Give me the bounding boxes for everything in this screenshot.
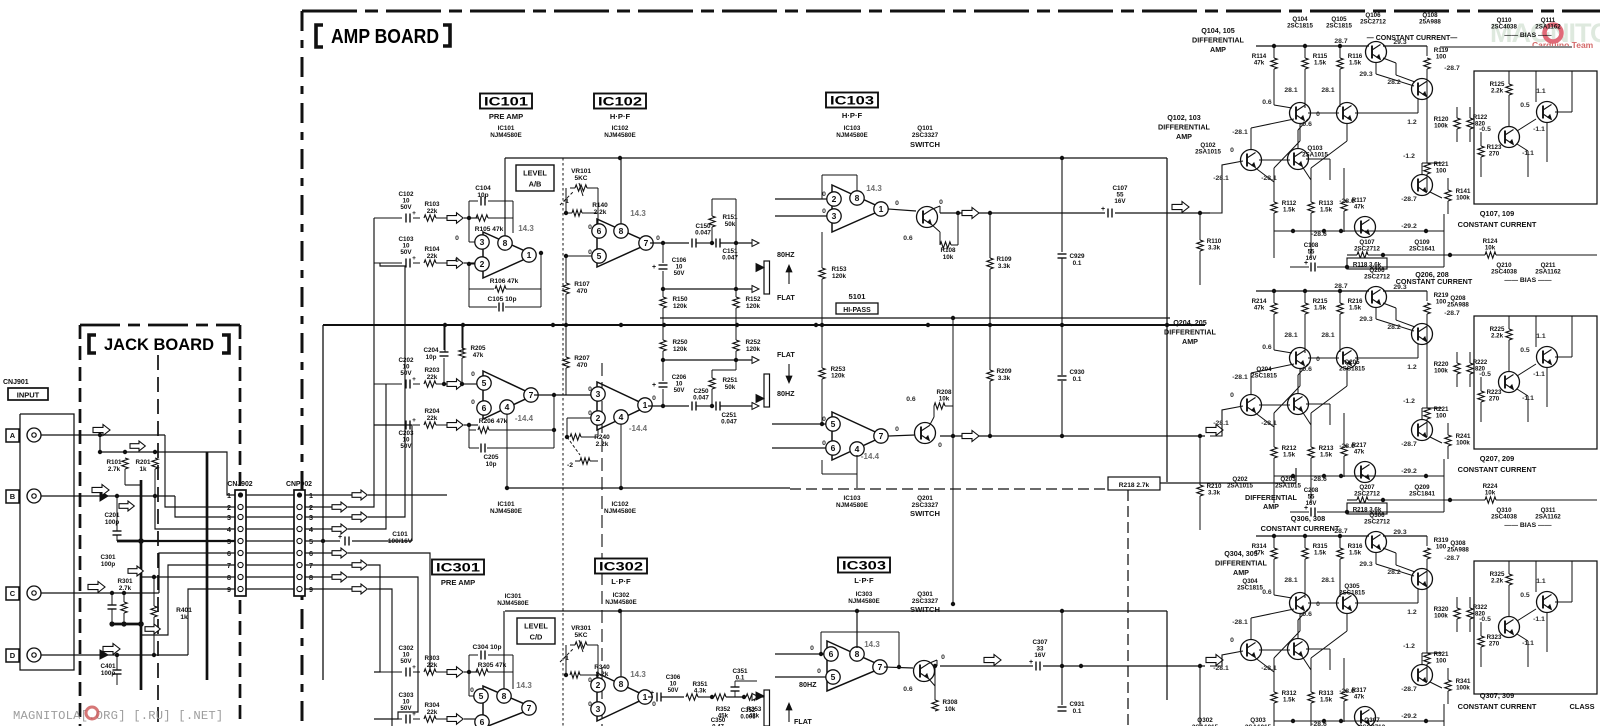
svg-text:10p: 10p bbox=[486, 461, 497, 468]
svg-text:-0.6: -0.6 bbox=[1300, 611, 1312, 618]
svg-text:28.1: 28.1 bbox=[1321, 577, 1334, 584]
svg-text:Q304, 305: Q304, 305 bbox=[1224, 549, 1258, 558]
svg-text:Q301: Q301 bbox=[917, 591, 933, 598]
svg-text:3.3k: 3.3k bbox=[998, 375, 1011, 382]
svg-text:A/B: A/B bbox=[529, 180, 542, 189]
svg-text:-28.7: -28.7 bbox=[1444, 65, 1460, 72]
svg-text:22k: 22k bbox=[427, 662, 438, 669]
svg-text:10p: 10p bbox=[426, 354, 437, 361]
svg-text:-28.1: -28.1 bbox=[1261, 665, 1277, 672]
svg-text:-0.5: -0.5 bbox=[1479, 126, 1491, 133]
svg-text:-28.6: -28.6 bbox=[1339, 688, 1355, 695]
svg-text:2SA1015: 2SA1015 bbox=[1275, 483, 1301, 490]
svg-text:R150: R150 bbox=[672, 296, 688, 303]
svg-text:0.047: 0.047 bbox=[693, 395, 709, 402]
svg-text:0: 0 bbox=[895, 426, 899, 433]
svg-text:120k: 120k bbox=[673, 303, 688, 310]
svg-text:SWITCH: SWITCH bbox=[910, 140, 940, 149]
svg-text:IC301: IC301 bbox=[436, 563, 481, 575]
svg-text:3.3k: 3.3k bbox=[998, 263, 1011, 270]
svg-text:NJM4580E: NJM4580E bbox=[848, 598, 880, 605]
svg-text:7: 7 bbox=[227, 561, 231, 570]
svg-text:2: 2 bbox=[227, 503, 231, 512]
svg-text:47k: 47k bbox=[1354, 204, 1365, 211]
svg-text:100: 100 bbox=[1436, 168, 1447, 175]
svg-text:L·P·F: L·P·F bbox=[611, 577, 631, 586]
svg-text:100/16V: 100/16V bbox=[388, 538, 413, 545]
svg-text:-28.6: -28.6 bbox=[1311, 721, 1327, 726]
svg-text:5: 5 bbox=[482, 378, 487, 388]
svg-text:47k: 47k bbox=[473, 352, 484, 359]
svg-text:47k: 47k bbox=[1354, 449, 1365, 456]
svg-text:C/D: C/D bbox=[530, 633, 543, 642]
svg-text:2SA1015: 2SA1015 bbox=[1195, 149, 1221, 156]
svg-text:R204: R204 bbox=[424, 408, 440, 415]
svg-text:-28.1: -28.1 bbox=[1213, 420, 1229, 427]
svg-text:0.6: 0.6 bbox=[1262, 344, 1272, 351]
svg-text:9: 9 bbox=[227, 585, 231, 594]
svg-text:2SC2712: 2SC2712 bbox=[1354, 491, 1380, 498]
svg-text:R207: R207 bbox=[574, 355, 590, 362]
svg-text:2SC3327: 2SC3327 bbox=[912, 132, 939, 139]
svg-text:R203: R203 bbox=[424, 367, 440, 374]
svg-text:2.7k: 2.7k bbox=[108, 466, 121, 473]
svg-text:22k: 22k bbox=[427, 374, 438, 381]
svg-text:2SA1162: 2SA1162 bbox=[1535, 269, 1561, 276]
svg-text:AMP: AMP bbox=[1210, 45, 1226, 54]
svg-text:8: 8 bbox=[855, 193, 860, 203]
svg-text:50V: 50V bbox=[400, 705, 412, 712]
svg-text:IC303: IC303 bbox=[842, 561, 886, 573]
svg-text:CNP902: CNP902 bbox=[286, 481, 312, 488]
svg-text:28.2: 28.2 bbox=[1387, 79, 1400, 86]
svg-text:-1.2: -1.2 bbox=[1403, 398, 1415, 405]
svg-text:29.3: 29.3 bbox=[1359, 71, 1372, 78]
svg-text:AMP BOARD: AMP BOARD bbox=[331, 26, 439, 48]
svg-text:1.1: 1.1 bbox=[1536, 88, 1546, 95]
svg-text:0: 0 bbox=[455, 257, 459, 264]
svg-text:8: 8 bbox=[855, 649, 860, 659]
svg-text:0: 0 bbox=[470, 687, 474, 694]
svg-text:AMP: AMP bbox=[1176, 132, 1192, 141]
svg-text:28.1: 28.1 bbox=[1284, 577, 1297, 584]
svg-text:C930: C930 bbox=[1069, 369, 1085, 376]
svg-text:1k: 1k bbox=[139, 466, 147, 473]
svg-text:47k: 47k bbox=[1254, 60, 1265, 67]
svg-text:28.1: 28.1 bbox=[1284, 87, 1297, 94]
svg-text:8: 8 bbox=[227, 573, 231, 582]
svg-text:MAGNITOLA[.ORG] [.RU] [.NET]: MAGNITOLA[.ORG] [.RU] [.NET] bbox=[13, 709, 223, 723]
svg-text:R152: R152 bbox=[745, 296, 761, 303]
svg-text:AMP: AMP bbox=[1182, 337, 1198, 346]
svg-text:10k: 10k bbox=[939, 396, 950, 403]
svg-text:7: 7 bbox=[529, 390, 534, 400]
svg-text:LEVEL: LEVEL bbox=[524, 622, 548, 631]
svg-text:5: 5 bbox=[597, 251, 602, 261]
svg-text:22k: 22k bbox=[427, 208, 438, 215]
svg-text:2SC2712: 2SC2712 bbox=[1360, 19, 1386, 26]
svg-text:0.5: 0.5 bbox=[1520, 347, 1530, 354]
svg-text:80HZ: 80HZ bbox=[799, 680, 817, 689]
svg-text:2SC1815: 2SC1815 bbox=[1251, 373, 1277, 380]
svg-text:IC102: IC102 bbox=[612, 125, 629, 132]
svg-text:R105 47k: R105 47k bbox=[475, 226, 504, 233]
svg-text:HI-PASS: HI-PASS bbox=[843, 307, 871, 314]
svg-text:100k: 100k bbox=[1456, 685, 1470, 692]
svg-text:270: 270 bbox=[1489, 151, 1500, 158]
svg-text:470: 470 bbox=[577, 288, 588, 295]
svg-text:2.2k: 2.2k bbox=[594, 209, 607, 216]
svg-text:-1.1: -1.1 bbox=[1533, 126, 1545, 133]
svg-text:2SC2712: 2SC2712 bbox=[1364, 519, 1390, 526]
svg-text:2: 2 bbox=[596, 413, 601, 423]
svg-text:C: C bbox=[10, 589, 16, 598]
svg-text:-0.5: -0.5 bbox=[1479, 371, 1491, 378]
svg-text:DIFFERENTIAL: DIFFERENTIAL bbox=[1158, 123, 1211, 132]
svg-text:80HZ: 80HZ bbox=[777, 389, 795, 398]
svg-text:R303: R303 bbox=[424, 655, 440, 662]
svg-text:28.7: 28.7 bbox=[1334, 283, 1347, 290]
svg-text:1.5k: 1.5k bbox=[1320, 207, 1333, 214]
svg-text:-14.4: -14.4 bbox=[515, 414, 534, 423]
svg-text:50V: 50V bbox=[668, 687, 680, 694]
svg-text:R308: R308 bbox=[942, 699, 958, 706]
svg-text:IC101: IC101 bbox=[498, 125, 515, 132]
svg-text:DIFFERENTIAL: DIFFERENTIAL bbox=[1245, 493, 1298, 502]
svg-text:0.1: 0.1 bbox=[1073, 708, 1082, 715]
svg-text:7: 7 bbox=[527, 703, 532, 713]
svg-text:0.6: 0.6 bbox=[903, 686, 913, 693]
svg-text:-28.7: -28.7 bbox=[1444, 310, 1460, 317]
svg-text:NJM4580E: NJM4580E bbox=[497, 600, 529, 607]
svg-text:AMP: AMP bbox=[1233, 568, 1249, 577]
svg-text:-28.6: -28.6 bbox=[1339, 198, 1355, 205]
svg-text:Q201: Q201 bbox=[917, 495, 933, 502]
svg-text:Carduino Team: Carduino Team bbox=[1532, 40, 1594, 50]
svg-text:3: 3 bbox=[596, 704, 601, 714]
svg-text:-0.6: -0.6 bbox=[1300, 366, 1312, 373]
svg-text:100: 100 bbox=[1436, 299, 1447, 306]
svg-text:C105 10p: C105 10p bbox=[488, 296, 517, 303]
svg-text:6: 6 bbox=[831, 443, 836, 453]
svg-text:0.6: 0.6 bbox=[1262, 99, 1272, 106]
svg-text:CNJ902: CNJ902 bbox=[227, 481, 252, 488]
svg-text:0: 0 bbox=[822, 191, 826, 198]
svg-text:JACK BOARD: JACK BOARD bbox=[104, 336, 214, 354]
svg-text:0: 0 bbox=[652, 701, 656, 708]
svg-text:IC301: IC301 bbox=[505, 593, 522, 600]
svg-text:2.2k: 2.2k bbox=[596, 441, 609, 448]
svg-text:+: + bbox=[652, 382, 656, 389]
svg-text:1.5k: 1.5k bbox=[1349, 60, 1362, 67]
svg-text:IC302: IC302 bbox=[613, 592, 630, 599]
svg-text:2: 2 bbox=[480, 259, 485, 269]
svg-text:3: 3 bbox=[227, 513, 231, 522]
svg-text:2SA1162: 2SA1162 bbox=[1535, 24, 1561, 31]
svg-text:2.7k: 2.7k bbox=[119, 585, 132, 592]
svg-text:NJM4580E: NJM4580E bbox=[604, 508, 637, 515]
svg-text:14.3: 14.3 bbox=[516, 681, 532, 690]
svg-text:120k: 120k bbox=[746, 346, 761, 353]
svg-text:50V: 50V bbox=[400, 658, 412, 665]
svg-text:-29.2: -29.2 bbox=[1401, 223, 1417, 230]
svg-text:1k: 1k bbox=[180, 614, 188, 621]
svg-text:-0.5: -0.5 bbox=[1479, 616, 1491, 623]
svg-text:10k: 10k bbox=[945, 706, 956, 713]
svg-text:+: + bbox=[1029, 659, 1033, 666]
svg-text:29.3: 29.3 bbox=[1359, 561, 1372, 568]
svg-text:R109: R109 bbox=[996, 256, 1012, 263]
svg-text:28.1: 28.1 bbox=[1284, 332, 1297, 339]
svg-text:28.1: 28.1 bbox=[1321, 332, 1334, 339]
svg-text:16V: 16V bbox=[1306, 500, 1318, 507]
svg-text:+: + bbox=[412, 255, 416, 262]
svg-text:6: 6 bbox=[480, 717, 485, 726]
svg-text:R250: R250 bbox=[672, 339, 688, 346]
svg-text:0: 0 bbox=[1316, 356, 1320, 363]
svg-text:-0.6: -0.6 bbox=[1300, 121, 1312, 128]
svg-text:NJM4580E: NJM4580E bbox=[605, 599, 637, 606]
svg-text:0: 0 bbox=[588, 410, 592, 417]
svg-text:-2: -2 bbox=[567, 462, 573, 469]
svg-text:2SC2712: 2SC2712 bbox=[1364, 274, 1390, 281]
svg-text:0: 0 bbox=[817, 668, 821, 675]
svg-text:0.047: 0.047 bbox=[695, 230, 711, 237]
svg-text:50V: 50V bbox=[674, 270, 686, 277]
svg-text:FLAT: FLAT bbox=[777, 350, 795, 359]
svg-text:1.1: 1.1 bbox=[1536, 578, 1546, 585]
svg-text:DIFFERENTIAL: DIFFERENTIAL bbox=[1192, 36, 1245, 45]
svg-text:+: + bbox=[412, 210, 416, 217]
svg-text:SWITCH: SWITCH bbox=[910, 509, 940, 518]
svg-text:4.3k: 4.3k bbox=[694, 688, 707, 695]
svg-text:IC102: IC102 bbox=[611, 501, 628, 508]
svg-text:50k: 50k bbox=[725, 221, 736, 228]
svg-text:14.3: 14.3 bbox=[518, 224, 534, 233]
svg-text:2.2k: 2.2k bbox=[1491, 88, 1504, 95]
svg-text:R222: R222 bbox=[1473, 360, 1488, 366]
svg-text:2SC1815: 2SC1815 bbox=[1287, 23, 1313, 30]
svg-text:8: 8 bbox=[619, 679, 624, 689]
svg-text:FLAT: FLAT bbox=[777, 293, 795, 302]
svg-text:NJM4580E: NJM4580E bbox=[490, 508, 523, 515]
svg-text:—— BIAS ——: —— BIAS —— bbox=[1504, 522, 1551, 529]
svg-text:1.5k: 1.5k bbox=[1314, 60, 1327, 67]
svg-text:10p: 10p bbox=[477, 192, 488, 199]
svg-text:C204: C204 bbox=[423, 347, 439, 354]
svg-text:AMP: AMP bbox=[1263, 502, 1279, 511]
svg-text:5: 5 bbox=[831, 672, 836, 682]
svg-text:2SC1815: 2SC1815 bbox=[1339, 366, 1365, 373]
svg-text:2SC1641: 2SC1641 bbox=[1409, 246, 1435, 253]
svg-text:IC101: IC101 bbox=[484, 97, 529, 109]
svg-text:100k: 100k bbox=[1456, 440, 1470, 447]
svg-text:R106 47k: R106 47k bbox=[490, 278, 519, 285]
svg-text:8: 8 bbox=[502, 691, 507, 701]
svg-text:-1.1: -1.1 bbox=[1522, 640, 1534, 647]
svg-text:1: 1 bbox=[527, 250, 532, 260]
svg-text:IC103: IC103 bbox=[830, 96, 874, 108]
svg-text:Q207, 209: Q207, 209 bbox=[1480, 454, 1515, 463]
svg-text:-28.1: -28.1 bbox=[1232, 374, 1248, 381]
svg-text:-1.1: -1.1 bbox=[1533, 371, 1545, 378]
svg-text:IC303: IC303 bbox=[856, 591, 873, 598]
svg-text:2: 2 bbox=[596, 680, 601, 690]
svg-text:C929: C929 bbox=[1069, 253, 1085, 260]
svg-text:-28.7: -28.7 bbox=[1401, 196, 1417, 203]
svg-text:-28.6: -28.6 bbox=[1339, 443, 1355, 450]
svg-text:H·P·F: H·P·F bbox=[842, 111, 863, 120]
svg-text:0: 0 bbox=[471, 371, 475, 378]
svg-text:1: 1 bbox=[643, 400, 648, 410]
svg-text:0: 0 bbox=[1230, 637, 1234, 644]
svg-text:R103: R103 bbox=[424, 201, 440, 208]
svg-text:Q102, 103: Q102, 103 bbox=[1167, 113, 1201, 122]
svg-text:R252: R252 bbox=[745, 339, 761, 346]
svg-text:0: 0 bbox=[588, 224, 592, 231]
svg-text:2SC4038: 2SC4038 bbox=[1491, 514, 1517, 521]
svg-text:C304 10p: C304 10p bbox=[473, 644, 502, 651]
svg-text:1.2: 1.2 bbox=[1407, 364, 1417, 371]
svg-text:2: 2 bbox=[832, 194, 837, 204]
svg-text:6: 6 bbox=[829, 649, 834, 659]
svg-text:0: 0 bbox=[810, 645, 814, 652]
svg-text:IC103: IC103 bbox=[844, 125, 861, 132]
svg-text:+: + bbox=[1101, 206, 1105, 213]
svg-text:100k: 100k bbox=[1434, 123, 1448, 130]
svg-text:NJM4580E: NJM4580E bbox=[490, 132, 522, 139]
svg-text:120k: 120k bbox=[832, 273, 847, 280]
svg-text:25A988: 25A988 bbox=[1419, 19, 1441, 26]
svg-text:R301: R301 bbox=[117, 578, 133, 585]
svg-text:A: A bbox=[10, 431, 16, 440]
svg-text:28.1: 28.1 bbox=[1321, 87, 1334, 94]
svg-text:Q101: Q101 bbox=[917, 125, 933, 132]
svg-text:3: 3 bbox=[596, 389, 601, 399]
svg-text:7: 7 bbox=[644, 238, 649, 248]
svg-text:R205: R205 bbox=[470, 345, 486, 352]
svg-text:1.5k: 1.5k bbox=[1320, 697, 1333, 704]
svg-text:+: + bbox=[338, 534, 342, 541]
svg-text:R201: R201 bbox=[135, 459, 151, 466]
svg-text:120k: 120k bbox=[673, 346, 688, 353]
svg-text:120k: 120k bbox=[746, 303, 761, 310]
svg-text:100: 100 bbox=[1436, 413, 1447, 420]
svg-text:100p: 100p bbox=[101, 561, 116, 568]
svg-text:+: + bbox=[412, 711, 416, 718]
svg-text:0.005: 0.005 bbox=[740, 713, 756, 720]
svg-text:470: 470 bbox=[577, 362, 588, 369]
svg-text:5: 5 bbox=[227, 537, 231, 546]
svg-text:6: 6 bbox=[482, 403, 487, 413]
svg-text:3.3k: 3.3k bbox=[1208, 490, 1221, 497]
svg-text:-28.7: -28.7 bbox=[1401, 441, 1417, 448]
svg-text:1.5k: 1.5k bbox=[1349, 550, 1362, 557]
svg-text:—— BIAS ——: —— BIAS —— bbox=[1504, 277, 1551, 284]
svg-text:CONSTANT CURRENT: CONSTANT CURRENT bbox=[1458, 465, 1537, 474]
svg-text:14.3: 14.3 bbox=[630, 209, 646, 218]
svg-text:-28.6: -28.6 bbox=[1311, 231, 1327, 238]
svg-text:100k: 100k bbox=[1434, 613, 1448, 620]
svg-text:CONSTANT CURRENT: CONSTANT CURRENT bbox=[1396, 277, 1473, 286]
svg-text:+: + bbox=[412, 417, 416, 424]
svg-text:— CONSTANT CURRENT—: — CONSTANT CURRENT— bbox=[1367, 35, 1457, 42]
svg-text:-14.4: -14.4 bbox=[861, 452, 880, 461]
svg-text:R206 47k: R206 47k bbox=[479, 418, 508, 425]
svg-text:3: 3 bbox=[480, 237, 485, 247]
svg-text:22k: 22k bbox=[427, 253, 438, 260]
svg-text:8: 8 bbox=[619, 226, 624, 236]
svg-text:0: 0 bbox=[588, 677, 592, 684]
svg-text:28.2: 28.2 bbox=[1387, 324, 1400, 331]
svg-text:2SC1815: 2SC1815 bbox=[1237, 585, 1263, 592]
svg-text:2SA1015: 2SA1015 bbox=[1302, 152, 1328, 159]
svg-text:R322: R322 bbox=[1473, 605, 1488, 611]
svg-text:—— BIAS ——: —— BIAS —— bbox=[1504, 32, 1551, 39]
svg-text:-1.1: -1.1 bbox=[1522, 395, 1534, 402]
svg-text:10k: 10k bbox=[943, 254, 954, 261]
svg-text:0: 0 bbox=[939, 199, 943, 206]
svg-text:50V: 50V bbox=[400, 204, 412, 211]
svg-text:2.2k: 2.2k bbox=[1491, 333, 1504, 340]
svg-text:22k: 22k bbox=[427, 415, 438, 422]
svg-text:5KC: 5KC bbox=[574, 632, 587, 639]
svg-text:28.2: 28.2 bbox=[1387, 569, 1400, 576]
svg-text:8: 8 bbox=[503, 238, 508, 248]
svg-text:NJM4580E: NJM4580E bbox=[836, 132, 868, 139]
svg-text:16V: 16V bbox=[1114, 198, 1126, 205]
svg-text:C931: C931 bbox=[1069, 701, 1085, 708]
svg-text:PRE AMP: PRE AMP bbox=[489, 112, 523, 121]
svg-text:-28.7: -28.7 bbox=[1444, 555, 1460, 562]
svg-text:FLAT: FLAT bbox=[794, 717, 812, 726]
svg-text:0: 0 bbox=[895, 200, 899, 207]
svg-text:1.2: 1.2 bbox=[1407, 119, 1417, 126]
svg-text:47k: 47k bbox=[1354, 694, 1365, 701]
svg-text:22k: 22k bbox=[427, 709, 438, 716]
svg-text:0: 0 bbox=[1316, 111, 1320, 118]
svg-text:50k: 50k bbox=[725, 384, 736, 391]
svg-text:7: 7 bbox=[878, 662, 883, 672]
svg-text:16V: 16V bbox=[1306, 255, 1318, 262]
svg-text:Q104, 105: Q104, 105 bbox=[1201, 26, 1235, 35]
svg-text:0: 0 bbox=[1230, 147, 1234, 154]
svg-text:0: 0 bbox=[588, 701, 592, 708]
svg-text:0.5: 0.5 bbox=[1520, 102, 1530, 109]
svg-text:2SC4038: 2SC4038 bbox=[1491, 24, 1517, 31]
svg-text:0: 0 bbox=[1316, 601, 1320, 608]
svg-text:100: 100 bbox=[1436, 658, 1447, 665]
svg-text:47k: 47k bbox=[1254, 305, 1265, 312]
svg-text:1.2: 1.2 bbox=[1407, 609, 1417, 616]
svg-text:28.7: 28.7 bbox=[1334, 38, 1347, 45]
svg-text:0.1: 0.1 bbox=[1073, 376, 1082, 383]
svg-text:-1.2: -1.2 bbox=[1403, 643, 1415, 650]
svg-text:1.5k: 1.5k bbox=[1349, 305, 1362, 312]
svg-text:50V: 50V bbox=[674, 387, 686, 394]
svg-text:0.047: 0.047 bbox=[721, 419, 737, 426]
svg-text:100k: 100k bbox=[1434, 368, 1448, 375]
svg-text:50V: 50V bbox=[400, 443, 412, 450]
svg-text:80HZ: 80HZ bbox=[777, 250, 795, 259]
svg-text:1.5k: 1.5k bbox=[1314, 305, 1327, 312]
svg-text:1.1: 1.1 bbox=[1536, 333, 1546, 340]
svg-text:IC302: IC302 bbox=[599, 562, 643, 574]
svg-text:LEVEL: LEVEL bbox=[523, 169, 547, 178]
svg-text:1: 1 bbox=[643, 692, 648, 702]
svg-text:CONSTANT CURRENT: CONSTANT CURRENT bbox=[1458, 220, 1537, 229]
svg-text:3.3k: 3.3k bbox=[1208, 245, 1221, 252]
